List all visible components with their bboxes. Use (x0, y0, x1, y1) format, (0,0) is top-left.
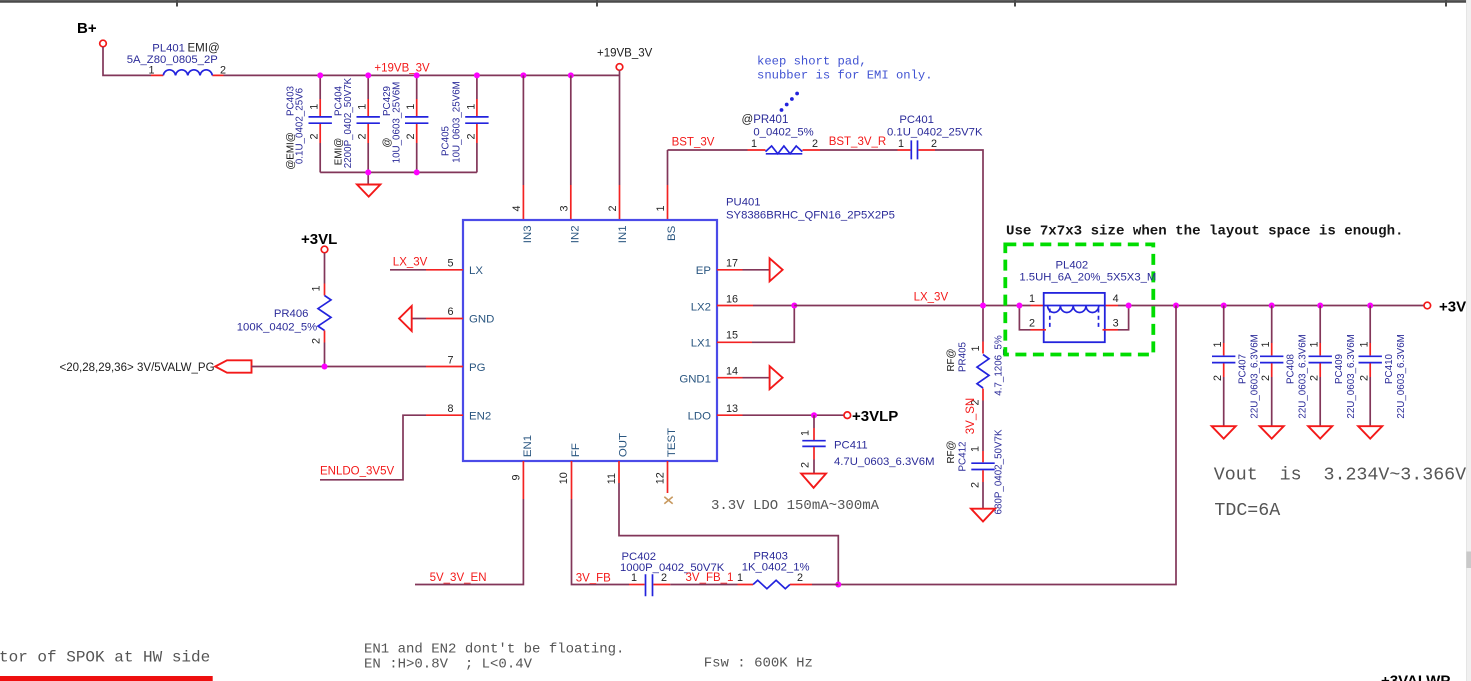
svg-text:OUT: OUT (618, 433, 630, 457)
svg-text:2200P_0402_50V7K: 2200P_0402_50V7K (343, 77, 354, 168)
svg-text:22U_0603_6.3V6M: 22U_0603_6.3V6M (1250, 334, 1261, 418)
svg-text:4: 4 (1113, 293, 1119, 305)
svg-text:LX_3V: LX_3V (914, 292, 949, 304)
svg-text:3.3V LDO 150mA~300mA: 3.3V LDO 150mA~300mA (711, 498, 880, 514)
node +3V terminal (1424, 302, 1431, 309)
svg-text:1: 1 (1029, 293, 1035, 305)
svg-text:+19VB_3V: +19VB_3V (374, 63, 430, 75)
node +3VLP terminal (844, 412, 851, 419)
svg-text:@PR401: @PR401 (742, 114, 789, 126)
capacitor PC409 (1309, 306, 1358, 426)
node B+ terminal (100, 40, 107, 47)
svg-text:PC408: PC408 (1286, 353, 1297, 384)
wire gnd stub (367, 172, 369, 184)
junction FB node (835, 582, 841, 588)
svg-text:LX_3V: LX_3V (393, 257, 428, 269)
svg-text:PL402: PL402 (1056, 260, 1089, 272)
svg-text:10U_0603_25V6M: 10U_0603_25V6M (392, 82, 403, 164)
svg-text:FF: FF (570, 443, 582, 457)
svg-text:14: 14 (726, 366, 738, 378)
capacitor RF@PC412 (946, 429, 1005, 514)
arrow EP (770, 258, 783, 281)
green layout box (1005, 244, 1153, 354)
svg-text:17: 17 (726, 257, 738, 269)
pin numbers right (726, 257, 738, 415)
wire pin5 (390, 269, 426, 271)
svg-text:+3VLP: +3VLP (852, 408, 898, 425)
no-connect X (664, 497, 672, 504)
svg-text:RF@: RF@ (946, 440, 957, 463)
wire pin16 LX2 (717, 305, 753, 307)
wire pin14 GND1 (717, 377, 743, 379)
capacitor PC407 (1212, 306, 1261, 426)
pin names left (469, 265, 494, 423)
svg-text:680P_0402_50V7K: 680P_0402_50V7K (994, 429, 1005, 514)
svg-text:2: 2 (931, 138, 937, 150)
svg-text:1: 1 (1359, 341, 1371, 347)
capacitor PC401 (887, 114, 983, 159)
op-amp U1 : IC PU401 body (463, 220, 717, 461)
pin numbers top (511, 205, 667, 211)
svg-text:PR405: PR405 (958, 341, 969, 372)
svg-text:tor of SPOK at HW side: tor of SPOK at HW side (0, 649, 210, 667)
wire B+ riser (103, 47, 151, 75)
svg-text:Use 7x7x3 size when the layout: Use 7x7x3 size when the layout space is … (1006, 224, 1404, 240)
inductor PL402 (1019, 260, 1156, 343)
capacitor PC404 (334, 75, 380, 172)
svg-text:15: 15 (726, 330, 738, 342)
svg-text:PU401: PU401 (726, 197, 761, 209)
svg-text:1: 1 (898, 138, 904, 150)
wire IN3 column (522, 75, 524, 185)
svg-text:EP: EP (696, 265, 711, 277)
wire pin6 GND (412, 318, 426, 320)
svg-text:snubber is for EMI only.: snubber is for EMI only. (757, 69, 933, 83)
wire pin8 EN2 (320, 415, 426, 480)
capacitor PC408 (1260, 306, 1309, 426)
svg-text:TDC=6A: TDC=6A (1214, 501, 1280, 521)
svg-text:2: 2 (812, 138, 818, 150)
svg-text:2: 2 (1359, 375, 1371, 381)
svg-text:12: 12 (655, 472, 667, 484)
svg-text:7: 7 (447, 355, 453, 367)
svg-text:1: 1 (465, 104, 477, 110)
wire OUT pin11 (618, 461, 620, 483)
pin names bottom (522, 428, 678, 457)
ground (PC409) (1308, 426, 1332, 438)
svg-text:3: 3 (1113, 318, 1119, 330)
wire IN2 column (570, 75, 572, 185)
junction dots rail (980, 303, 1373, 309)
wire EN1 pin9 (522, 461, 524, 499)
svg-text:EN2: EN2 (469, 411, 491, 423)
capacitor PC410 (1359, 306, 1408, 426)
arrow GND1 (770, 366, 783, 389)
svg-text:6: 6 (447, 306, 453, 318)
wire TEST pin12 (667, 461, 669, 493)
svg-text:2: 2 (970, 482, 982, 488)
svg-text:RF@: RF@ (946, 348, 957, 371)
svg-text:2: 2 (465, 133, 477, 139)
svg-text:1: 1 (800, 430, 812, 436)
svg-text:2: 2 (1029, 318, 1035, 330)
junction dots top rail (317, 72, 574, 175)
svg-text:11: 11 (606, 473, 618, 484)
svg-text:3V_SN: 3V_SN (965, 398, 977, 434)
svg-text:10: 10 (558, 472, 570, 484)
svg-text:EN1 and EN2 dont't be floating: EN1 and EN2 dont't be floating. (364, 642, 624, 658)
svg-text:GND: GND (469, 314, 494, 326)
svg-text:GND1: GND1 (679, 374, 711, 386)
svg-text:2: 2 (405, 133, 417, 139)
svg-text:3V_FB_1: 3V_FB_1 (686, 572, 734, 584)
svg-text:1: 1 (655, 205, 667, 211)
pin numbers bottom (511, 472, 667, 484)
wire pin17 EP (717, 269, 743, 271)
off-page connector 3V/5VALW_PG (60, 360, 252, 374)
svg-text:PC407: PC407 (1238, 354, 1249, 384)
svg-text:9: 9 (511, 474, 523, 480)
svg-text:2: 2 (800, 462, 812, 468)
svg-text:3V_FB: 3V_FB (576, 573, 611, 585)
wire PL402 left riser (1019, 306, 1030, 330)
pin names top (522, 225, 678, 243)
svg-text:4: 4 (511, 205, 523, 211)
pin numbers left (447, 257, 453, 415)
svg-text:EN :H>0.8V ; L<0.4V: EN :H>0.8V ; L<0.4V (364, 656, 533, 672)
capacitor PC411 (800, 415, 935, 473)
svg-text:EMI@: EMI@ (188, 43, 220, 55)
ground (input caps) (357, 185, 380, 197)
svg-text:+19VB_3V: +19VB_3V (597, 48, 653, 60)
svg-text:2: 2 (357, 133, 369, 139)
svg-text:BST_3V_R: BST_3V_R (829, 136, 887, 148)
svg-text:3V/5VALW_PG: 3V/5VALW_PG (137, 362, 215, 374)
svg-text:1: 1 (1309, 341, 1321, 347)
svg-text:22U_0603_6.3V6M: 22U_0603_6.3V6M (1298, 334, 1309, 418)
ground (PC408) (1260, 426, 1284, 438)
svg-text:2: 2 (1260, 375, 1272, 381)
dotted callout line (780, 92, 799, 112)
svg-text:+3VL: +3VL (301, 231, 337, 248)
capacitor PC402 (620, 551, 725, 596)
svg-text:3: 3 (559, 205, 571, 211)
svg-text:IN1: IN1 (617, 225, 629, 243)
wire top +19VB rail (224, 74, 620, 76)
svg-text:EN1: EN1 (522, 435, 534, 457)
svg-text:PC411: PC411 (834, 440, 868, 452)
resistor RF@PR405 (946, 335, 1005, 451)
svg-text:SY8386BRHC_QFN16_2P5X2P5: SY8386BRHC_QFN16_2P5X2P5 (726, 210, 895, 222)
svg-text:+3VALWP: +3VALWP (1381, 673, 1450, 681)
ground (PC410) (1358, 426, 1382, 438)
wire +3VALW feedback rail (838, 306, 1176, 585)
svg-text:22U_0603_6.3V6M: 22U_0603_6.3V6M (1396, 334, 1407, 418)
red underline bar (0, 676, 213, 681)
wire IN1 column (619, 70, 621, 185)
svg-text:5: 5 (447, 257, 453, 269)
svg-text:1: 1 (751, 138, 757, 150)
junction LX2 (791, 303, 797, 309)
svg-text:TEST: TEST (666, 428, 678, 457)
svg-text:1: 1 (309, 104, 321, 110)
scrollbar strip right edge (1466, 0, 1471, 681)
resistor @PR401 (742, 114, 821, 154)
ground (PC411) (801, 474, 826, 488)
wire pin15 LX1 (717, 341, 752, 343)
svg-text:0_0402_5%: 0_0402_5% (753, 127, 813, 139)
wire to PR403 (670, 584, 737, 586)
svg-text:IN3: IN3 (522, 225, 534, 243)
svg-text:0.1U_0402_25V7K: 0.1U_0402_25V7K (887, 127, 983, 139)
svg-text:1: 1 (1260, 341, 1272, 347)
svg-text:LX1: LX1 (691, 337, 711, 349)
svg-text:B+: B+ (77, 20, 97, 37)
svg-text:PC410: PC410 (1384, 353, 1395, 384)
ground (PC412) (971, 509, 995, 522)
svg-text:PC412: PC412 (958, 442, 969, 472)
svg-text:PG: PG (469, 362, 486, 374)
svg-text:Vout is 3.234V~3.366V: Vout is 3.234V~3.366V (1214, 465, 1466, 485)
ground arrow pin6 (399, 306, 412, 331)
svg-text:1: 1 (970, 345, 982, 351)
wire PL402 right riser (1118, 306, 1129, 330)
svg-text:PC409: PC409 (1334, 354, 1345, 384)
wire BST down to rail (935, 150, 983, 342)
sheet top border (0, 0, 1468, 7)
svg-text:1.5UH_6A_20%_5X5X3_M: 1.5UH_6A_20%_5X5X3_M (1019, 272, 1156, 284)
wire PR403 to FB node (812, 584, 838, 586)
svg-text:LX2: LX2 (691, 301, 711, 313)
inductor PL401 (127, 43, 226, 77)
svg-text:5V_3V_EN: 5V_3V_EN (430, 572, 487, 584)
svg-text:1: 1 (1212, 341, 1224, 347)
svg-text:4.7U_0603_6.3V6M: 4.7U_0603_6.3V6M (834, 456, 935, 468)
capacitor PC403 (286, 75, 332, 172)
svg-text:1: 1 (311, 285, 323, 291)
svg-text:2: 2 (311, 338, 323, 344)
svg-text:PR406: PR406 (274, 308, 309, 320)
svg-text:13: 13 (726, 403, 738, 415)
svg-text:LX: LX (469, 265, 483, 277)
junction node PG/PR406 (322, 364, 328, 370)
svg-text:PC401: PC401 (899, 114, 934, 126)
resistor PR406 (237, 253, 331, 367)
capacitor PC405 (441, 75, 489, 172)
svg-text:4.7_1206_5%: 4.7_1206_5% (994, 335, 1005, 396)
svg-text:LDO: LDO (688, 411, 712, 423)
wire FF pin10 (571, 461, 573, 499)
wire pin7 PG (252, 366, 427, 368)
svg-text:0.1U_0402_25V6: 0.1U_0402_25V6 (295, 87, 306, 164)
node +3VL terminal (301, 231, 337, 253)
svg-text:8: 8 (447, 403, 453, 415)
capacitor PC429 (382, 75, 428, 172)
node +19VB_3V terminal (597, 48, 653, 71)
svg-text:<20,28,29,36>: <20,28,29,36> (60, 362, 134, 374)
svg-text:BST_3V: BST_3V (672, 137, 715, 149)
svg-text:100K_0402_5%: 100K_0402_5% (237, 322, 317, 334)
svg-text:2: 2 (1309, 375, 1321, 381)
svg-text:IN2: IN2 (570, 225, 582, 243)
svg-text:22U_0603_6.3V6M: 22U_0603_6.3V6M (1346, 334, 1357, 418)
svg-text:16: 16 (726, 294, 738, 306)
svg-text:PL401: PL401 (152, 43, 185, 55)
svg-text:1K_0402_1%: 1K_0402_1% (742, 561, 810, 573)
svg-text:2: 2 (1212, 375, 1224, 381)
svg-text:1: 1 (737, 572, 743, 584)
svg-text:10U_0603_25V6M: 10U_0603_25V6M (452, 81, 463, 163)
svg-text:ENLDO_3V5V: ENLDO_3V5V (320, 466, 394, 478)
svg-text:2: 2 (607, 205, 619, 211)
ground (PC407) (1212, 426, 1236, 438)
svg-text:+3V: +3V (1439, 299, 1466, 316)
wire pin13 LDO (717, 414, 743, 416)
svg-text:1: 1 (405, 104, 417, 110)
svg-text:1: 1 (148, 65, 154, 77)
svg-text:1: 1 (357, 104, 369, 110)
svg-text:keep short pad,: keep short pad, (757, 55, 867, 69)
pin names right (679, 265, 711, 423)
svg-text:2: 2 (797, 572, 803, 584)
svg-text:1: 1 (970, 446, 982, 452)
svg-text:BS: BS (666, 225, 678, 241)
resistor PR403 (737, 550, 812, 588)
wire cap bottom rail (320, 171, 477, 173)
svg-text:2: 2 (309, 133, 321, 139)
svg-text:PC405: PC405 (441, 125, 452, 156)
svg-text:Fsw : 600K Hz: Fsw : 600K Hz (704, 655, 813, 671)
svg-text:5A_Z80_0805_2P: 5A_Z80_0805_2P (127, 54, 218, 66)
wire BS column (667, 150, 669, 185)
wire main output rail (794, 305, 1030, 307)
